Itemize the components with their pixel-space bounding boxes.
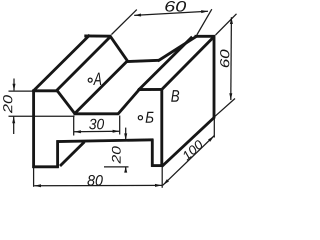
label 20 left rotated: [3, 95, 12, 113]
arrow 80 left: [34, 184, 41, 187]
label 30: [89, 119, 104, 130]
ext line top for left 20 dim: [9, 90, 34, 92]
label Б: [146, 112, 154, 123]
dim line 80: [34, 184, 162, 186]
ext line top 60 left: [112, 10, 137, 35]
point marker circle A: [88, 78, 92, 82]
dim line 30: [74, 130, 120, 133]
ext line right for 30 dim: [119, 116, 121, 135]
back V-notch left slope: [110, 35, 128, 61]
channel right vertical edge: [151, 139, 154, 167]
V-notch bottom edge (front): [74, 112, 119, 115]
arrow top60 right: [201, 10, 208, 13]
shared ext line 80/100 right: [161, 167, 163, 188]
label 20 channel rotated: [112, 146, 121, 163]
dim line left 20 lower: [13, 117, 15, 134]
receding edge from V-notch bottom-left: [75, 61, 128, 114]
back notch right diagonal: [158, 36, 197, 61]
label 100 rotated: [181, 139, 204, 161]
front right edge: [160, 88, 163, 167]
back right edge: [213, 35, 216, 118]
arrow top60 left: [134, 14, 141, 17]
dim line 100: [163, 136, 215, 186]
receding edge from V-notch top-right: [138, 37, 192, 91]
arrow 30 left: [74, 130, 81, 133]
arrow 30 right: [113, 130, 120, 133]
point marker circle Б: [138, 116, 142, 120]
ext line left for 30 dim: [73, 116, 75, 136]
front top edge right segment: [138, 88, 163, 91]
V-notch right slope (front): [118, 90, 140, 115]
label 60 right rotated: [220, 50, 229, 68]
front bottom edge right bit: [151, 164, 163, 167]
arrow 80 right: [155, 184, 162, 187]
label В: [171, 90, 179, 102]
ext line 100 upper: [213, 119, 215, 138]
ext line right 60 top: [216, 14, 237, 35]
receding edge from front top-right corner: [161, 36, 214, 90]
channel top edge: [57, 140, 154, 142]
bottom-right receding edge: [162, 117, 215, 167]
dim line right 60: [230, 17, 233, 100]
back top edge left segment: [84, 34, 111, 37]
ext line bottom for left 20 dim: [9, 115, 75, 117]
arrow 100 lower: [163, 179, 169, 185]
ext line channel 20 bottom: [104, 166, 129, 168]
front top edge left segment: [32, 89, 57, 92]
receding edge from V-notch top-left: [56, 36, 111, 91]
dim line channel 20 lower: [125, 167, 127, 172]
back top edge right segment: [195, 35, 216, 38]
front bottom edge left bit: [32, 165, 58, 168]
label 60 top: [165, 1, 186, 12]
receding edge from front top-left corner: [33, 35, 90, 92]
arrow left20 down: [13, 84, 16, 91]
channel inner receding diagonal: [60, 142, 84, 166]
arrow chan20 down: [124, 133, 127, 140]
ext line top 60 right: [197, 9, 212, 35]
dim line channel 20 upper: [125, 128, 127, 140]
arrow chan20 up: [124, 166, 127, 172]
arrow 100 upper: [208, 136, 214, 142]
label A: [93, 73, 101, 85]
label 80: [87, 175, 102, 186]
dim line left 20 upper: [13, 79, 15, 91]
arrow right60 down: [229, 93, 232, 100]
arrow left20 up: [12, 116, 15, 123]
front left edge: [32, 90, 35, 168]
channel left vertical edge: [56, 140, 59, 168]
ext line right 60 bottom: [215, 99, 235, 117]
ext line 80 left: [33, 168, 35, 187]
V-notch left slope (front): [57, 90, 75, 114]
dim line top 60: [134, 11, 208, 15]
arrow right60 up: [230, 17, 233, 24]
back notch bottom edge: [127, 60, 159, 61]
